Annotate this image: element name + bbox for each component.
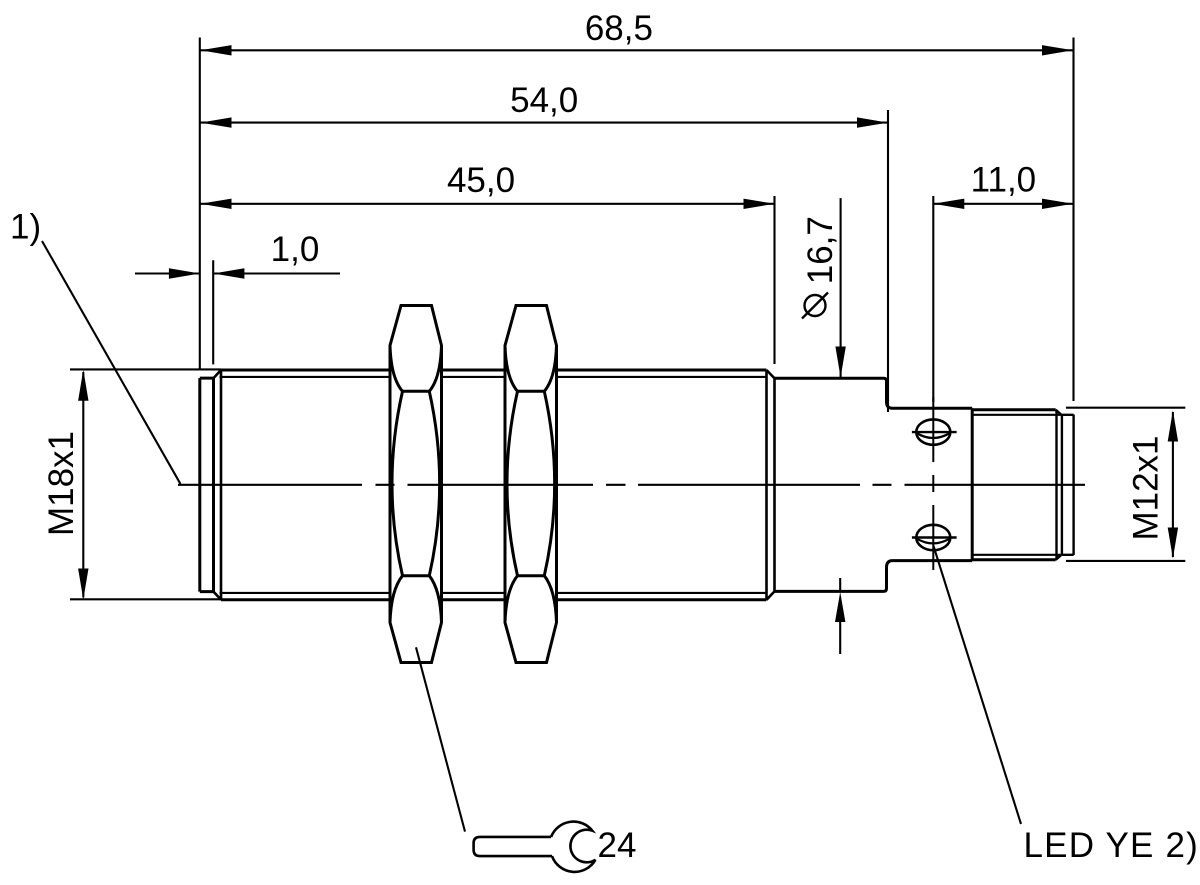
svg-text:LED YE 2): LED YE 2) <box>1024 826 1200 865</box>
dimension M12x1 <box>1066 408 1185 561</box>
svg-text:1): 1) <box>10 208 41 247</box>
node hex nut 2 <box>505 306 557 663</box>
node thread crest lines M18 <box>221 370 767 600</box>
node wrench leader <box>416 647 465 831</box>
node LED window bottom <box>912 525 957 550</box>
node hex nut 1 <box>390 306 442 663</box>
node thread end chamfer right <box>767 370 775 600</box>
svg-text:54,0: 54,0 <box>510 81 578 120</box>
node M12 thread root lines <box>972 415 1062 555</box>
node label 1) leader <box>42 241 180 484</box>
svg-text:M12x1: M12x1 <box>1127 435 1166 540</box>
svg-text:1,0: 1,0 <box>271 230 320 269</box>
dimension dia 16,7 <box>835 198 846 654</box>
svg-text:16,7: 16,7 <box>801 216 840 284</box>
svg-text:M18x1: M18x1 <box>42 431 81 536</box>
dimension 68,5 <box>200 38 1074 402</box>
node thread chamfer left <box>214 370 222 600</box>
dimension 11,0 <box>933 196 1073 402</box>
node connector housing edges <box>972 410 1055 560</box>
svg-text:68,5: 68,5 <box>585 9 653 48</box>
node sensing face cylinder <box>200 378 214 591</box>
node LED window top <box>912 419 957 444</box>
dimension 54,0 <box>201 110 889 412</box>
node centerline main axis <box>178 484 1085 486</box>
svg-text:24: 24 <box>598 826 637 865</box>
node M12 end cap <box>1062 415 1074 556</box>
svg-text:11,0: 11,0 <box>971 160 1037 199</box>
node diameter symbol <box>802 293 828 319</box>
node LED leader <box>934 546 1022 824</box>
node wrench symbol 24 <box>474 822 596 872</box>
node LED vertical centerline <box>932 397 934 570</box>
node M12 thread end chamfer <box>1056 410 1062 560</box>
svg-text:45,0: 45,0 <box>447 161 515 200</box>
node thread root lines M18 <box>220 377 767 593</box>
dimension 45,0 <box>201 196 775 364</box>
dimension M18x1 <box>70 369 221 599</box>
node body section dia 16.7 <box>775 378 973 591</box>
dimension 1,0 <box>135 260 340 364</box>
